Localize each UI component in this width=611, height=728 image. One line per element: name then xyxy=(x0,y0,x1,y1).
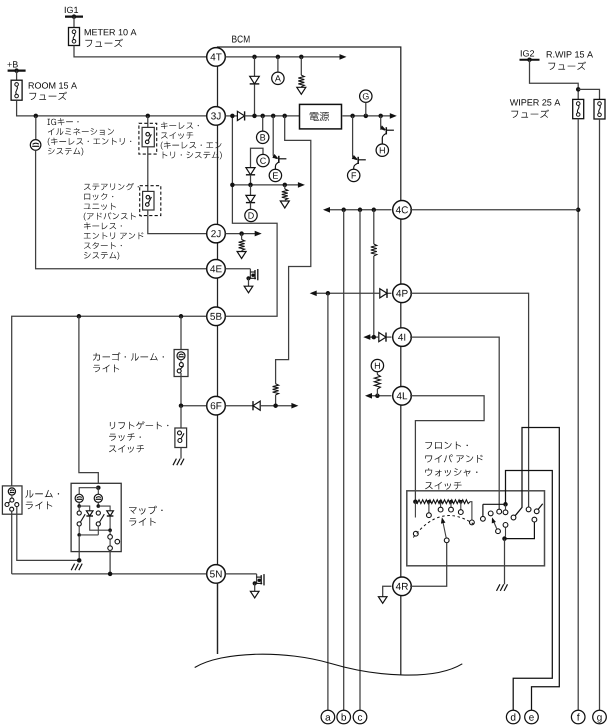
terminal b xyxy=(337,710,351,724)
connector 2J xyxy=(207,224,226,243)
wiper rotary contacts xyxy=(413,502,474,536)
label METER 10A fuse xyxy=(85,29,137,47)
wire WIPER fuse to 4C line xyxy=(577,119,579,210)
wire +B line to note symbol xyxy=(35,116,37,140)
wire 4I to washer switch xyxy=(410,337,499,509)
wire 5B to cargo light xyxy=(180,316,182,349)
connector 5N xyxy=(207,565,226,584)
label room light xyxy=(25,490,59,509)
wire 6F left segment xyxy=(179,403,207,408)
wire BCM left edge below 5N xyxy=(217,583,219,654)
wire wiper arm to 4R xyxy=(410,543,447,587)
wire 3J to riser xyxy=(225,114,277,317)
wire 5B bus xyxy=(12,314,207,486)
terminal e xyxy=(525,710,539,724)
chassis ground G5 xyxy=(497,584,508,591)
terminal d xyxy=(506,710,520,724)
label steering lock unit xyxy=(84,183,144,260)
washer contact circles xyxy=(488,504,508,527)
wire 4P to terminal a xyxy=(327,293,329,710)
chassis ground G2 xyxy=(173,459,184,466)
wire 3J bus to 6F resistor xyxy=(276,116,311,384)
map light switch SB xyxy=(96,511,104,535)
wire 4E to body ground xyxy=(225,268,250,270)
wire liftgate switch to ground xyxy=(180,448,182,459)
wire 4C left bus xyxy=(323,207,392,213)
node H xyxy=(376,144,388,156)
resistor R5 xyxy=(371,210,377,337)
wire ROOM fuse to BCM 3J xyxy=(17,100,207,118)
fuse WIPER 25A xyxy=(573,99,584,118)
wire +B line to keyless switch xyxy=(147,116,149,128)
diode D1 (4T to 3J) xyxy=(250,57,260,116)
diode D4 xyxy=(246,185,255,203)
map light diode DA xyxy=(77,502,110,530)
wire room light to door ground xyxy=(17,507,79,561)
wiper variable resistor xyxy=(413,499,472,520)
connector 4P xyxy=(393,284,412,303)
chassis ground G3 xyxy=(71,564,82,571)
diode D3 xyxy=(246,168,255,185)
transistor Q-F xyxy=(352,116,366,169)
wire 4C to terminal c xyxy=(359,210,361,711)
wire 4L left xyxy=(365,393,392,399)
transistor Q-E xyxy=(272,116,286,169)
wire keyless sense bus xyxy=(230,182,305,188)
resistor R3 xyxy=(273,384,279,395)
wire 4C right to fuse drop xyxy=(410,209,578,211)
power node +B xyxy=(7,61,25,73)
connector continuation arrow 4R xyxy=(378,597,387,604)
connector 5B xyxy=(207,307,226,326)
wire 2J arrow xyxy=(225,231,261,237)
keyless switch (dashed box) xyxy=(139,123,157,154)
terminal g xyxy=(593,710,607,724)
liftgate latch switch xyxy=(175,428,187,448)
label liftgate latch switch xyxy=(109,421,168,453)
diode D2 (3J input) xyxy=(225,111,299,120)
label keyless switch xyxy=(161,122,222,159)
note symbol a (IG key illumination) xyxy=(30,140,41,151)
resistor R6 xyxy=(374,372,380,396)
label R.WIP 15A fuse xyxy=(547,51,593,70)
map light switch SA xyxy=(77,506,98,537)
front wiper and washer switch box xyxy=(407,491,545,566)
map light lamps xyxy=(75,485,102,502)
wire R.WIP fuse to terminal g xyxy=(599,119,601,710)
wire 4R to connector arrow xyxy=(383,586,392,597)
wire 5B to map light xyxy=(79,316,98,487)
wire map light to 5N bus xyxy=(109,550,111,574)
washer common wire xyxy=(481,502,508,521)
steering lock unit (dashed box) xyxy=(140,186,161,216)
power node IG2 xyxy=(520,50,540,62)
wire map light to ground xyxy=(77,537,82,563)
connector 4T xyxy=(207,48,226,67)
wire IG1 to fuse xyxy=(73,17,75,28)
BCM box xyxy=(218,36,401,676)
wire resistor R3 to 6F line xyxy=(275,395,277,406)
wire 4P to washer switch xyxy=(410,293,531,512)
map light box xyxy=(71,483,121,551)
body ground G1 xyxy=(244,269,258,293)
wire steering lock to BCM 2J xyxy=(148,210,207,234)
node G xyxy=(360,90,372,116)
terminal f xyxy=(571,710,585,724)
resistor R2 with arrow xyxy=(280,185,289,208)
wire 4L to wiper switch xyxy=(410,396,484,502)
connector 4L xyxy=(393,387,412,406)
node E xyxy=(269,169,281,181)
diagram break wave xyxy=(195,654,463,675)
map light diode DB xyxy=(97,502,114,532)
diode D6 (4P) xyxy=(310,289,392,298)
fuse R.WIP 15A xyxy=(594,99,605,119)
resistor R1 with arrow xyxy=(297,57,306,94)
wire 4C to terminal b xyxy=(343,210,345,711)
connector 3J xyxy=(207,107,226,126)
wire room light to 5N bus xyxy=(11,511,13,574)
node C feed xyxy=(251,148,264,167)
wire keyless switch to steering lock xyxy=(147,147,149,192)
map light connector pins xyxy=(108,530,120,550)
washer blade xyxy=(492,517,501,533)
power supply box xyxy=(300,104,342,128)
wire washer to terminal d xyxy=(506,471,553,711)
node A xyxy=(272,57,284,85)
node C xyxy=(257,154,269,166)
node F xyxy=(348,169,360,181)
terminal c xyxy=(353,710,367,724)
wire IG2 to fuses xyxy=(530,60,600,100)
wire power supply output xyxy=(342,113,396,119)
wire cargo light to 6F line xyxy=(180,373,182,406)
wire 5N bus xyxy=(12,572,207,577)
fuse ROOM 15A xyxy=(11,80,22,100)
connector 4E xyxy=(207,260,226,279)
connector 6F xyxy=(207,396,226,415)
body ground G4 xyxy=(250,574,264,598)
resistor R4 with arrow xyxy=(237,234,246,259)
node B xyxy=(257,116,269,144)
wire METER fuse to BCM 4T xyxy=(74,46,206,57)
label WIPER 25A fuse xyxy=(510,99,561,118)
label ROOM 15A fuse xyxy=(29,82,77,100)
diode D7 (4I) xyxy=(363,333,391,342)
power node IG1 xyxy=(65,7,83,19)
label cargo room light xyxy=(93,352,164,372)
wire +B to fuse xyxy=(16,71,18,81)
wire 6F to liftgate switch xyxy=(180,406,182,428)
fuse METER 10A xyxy=(69,28,80,46)
washer blade to ground node xyxy=(502,527,507,541)
connector 4I xyxy=(393,328,412,347)
wire washer to terminal e xyxy=(511,428,559,711)
wire note symbol to BCM 4E xyxy=(36,150,207,269)
washer right contact pair xyxy=(505,504,543,539)
node H2 xyxy=(371,359,383,371)
connector 4C xyxy=(393,201,412,220)
transistor Q-H xyxy=(380,116,394,144)
node D xyxy=(245,203,257,222)
wiper rotary dashed arc xyxy=(413,516,474,538)
wiper arm xyxy=(441,517,449,542)
wiper switch ground wire xyxy=(504,539,506,585)
wire WIPER fuse to terminal f xyxy=(576,208,581,711)
diode D5 (6F) xyxy=(225,401,298,410)
wire 5N to body ground xyxy=(225,573,256,575)
connector 4R xyxy=(393,577,412,596)
room light xyxy=(2,486,22,514)
terminal a xyxy=(321,710,335,724)
cargo room light xyxy=(174,350,188,377)
label map light xyxy=(129,506,163,526)
label IG key illumination xyxy=(48,118,132,156)
label front wiper and washer switch xyxy=(425,442,483,490)
wire 4T bus xyxy=(225,54,346,60)
